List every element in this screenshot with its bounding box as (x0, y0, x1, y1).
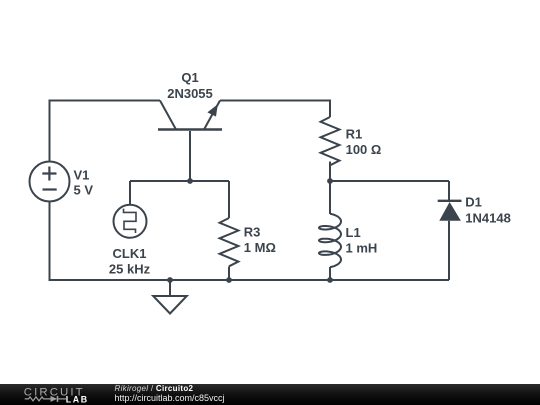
svg-text:L1: L1 (346, 225, 361, 240)
svg-text:LAB: LAB (66, 394, 89, 404)
wire ground rail mid (170, 279, 330, 281)
transistor Q1 (158, 101, 222, 130)
wire L1 bottom (329, 267, 331, 280)
Q1 base bar (158, 128, 222, 131)
svg-text:1 MΩ: 1 MΩ (244, 240, 276, 255)
svg-text:5 V: 5 V (74, 183, 94, 198)
wire R1 bottom to node (329, 162, 331, 182)
diode D1 (438, 201, 462, 221)
node L1 ground junction (327, 277, 333, 283)
wire D1 top (448, 181, 450, 201)
svg-text:http://circuitlab.com/c85vccj: http://circuitlab.com/c85vccj (115, 393, 225, 403)
node ground junction (167, 277, 173, 283)
voltage source V1 (30, 162, 70, 202)
resistor R3 (220, 218, 239, 266)
wire top rail emitter to R1 (220, 101, 330, 118)
Q1 emitter diagonal (204, 101, 220, 130)
node R3 ground junction (226, 277, 232, 283)
svg-text:100 Ω: 100 Ω (346, 142, 382, 157)
svg-text:25 kHz: 25 kHz (109, 262, 151, 277)
wire L1 top (329, 181, 331, 214)
wire V1 top to rail (50, 101, 161, 162)
svg-text:R3: R3 (244, 225, 261, 240)
ground (153, 280, 187, 314)
svg-text:1 mH: 1 mH (346, 241, 378, 256)
wire V1 bottom to ground rail (50, 202, 171, 281)
Q1 collector diagonal (160, 101, 176, 130)
wire ground rail right (330, 279, 449, 281)
svg-text:R1: R1 (346, 127, 363, 142)
svg-text:V1: V1 (74, 168, 90, 183)
inductor L1 (319, 214, 341, 268)
resistor R1 (321, 117, 340, 165)
Q1 emitter arrow (207, 104, 217, 116)
svg-text:2N3055: 2N3055 (167, 86, 213, 101)
logo diode (51, 396, 58, 402)
wire R3 bottom (228, 267, 230, 281)
clock source CLK1 (114, 205, 147, 238)
wire CLK1 stem (129, 181, 131, 205)
svg-text:Q1: Q1 (181, 70, 198, 85)
svg-text:Rikirogel / Circuito2: Rikirogel / Circuito2 (115, 384, 194, 393)
wire node to D1 (330, 180, 449, 182)
logo resistor squiggle (25, 396, 66, 402)
footer bar (0, 384, 540, 405)
wire base horizontal CLK1 to R3 (130, 180, 229, 182)
svg-text:CLK1: CLK1 (113, 246, 147, 261)
wire base vertical (189, 131, 191, 181)
wire R3 top (228, 181, 230, 218)
node R1-L1-D1 junction (327, 178, 333, 184)
node base junction (187, 178, 193, 184)
svg-text:D1: D1 (465, 195, 482, 210)
svg-text:1N4148: 1N4148 (465, 211, 511, 226)
wire D1 bottom (448, 221, 450, 280)
